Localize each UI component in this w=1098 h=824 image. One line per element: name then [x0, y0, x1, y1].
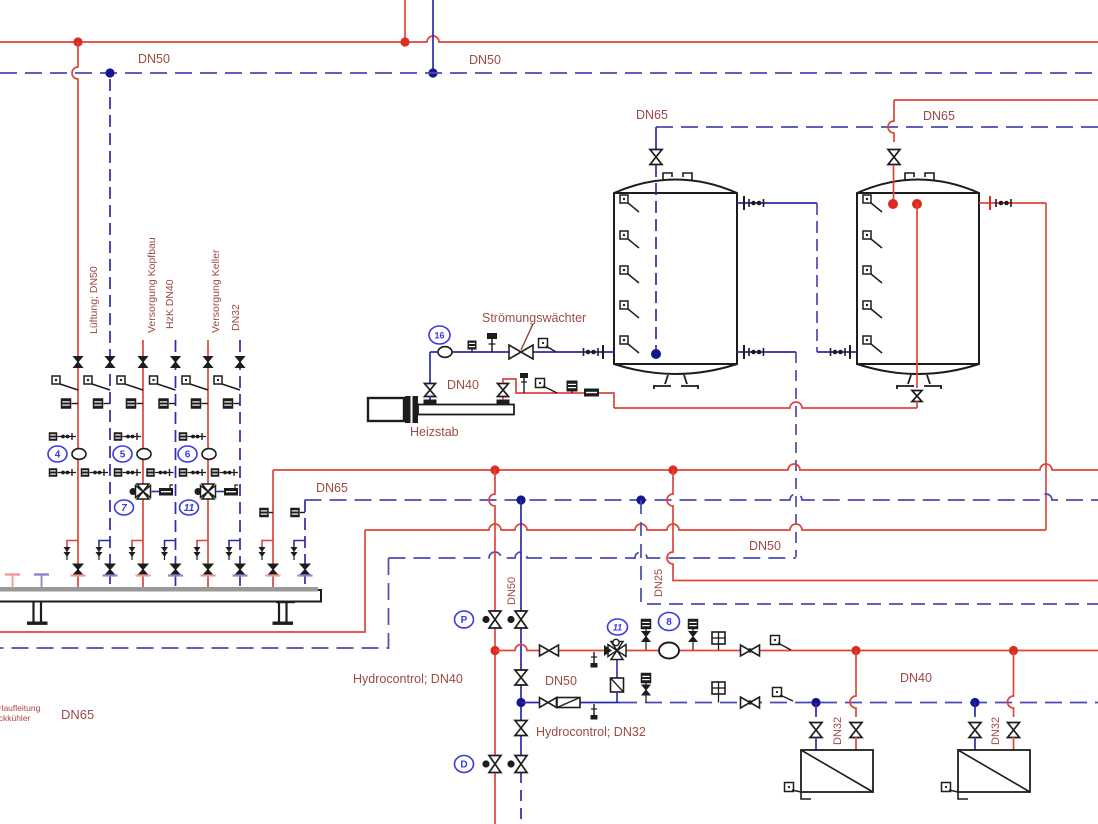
node blue (975,702.5) — [970, 698, 979, 707]
pipe: blue drop x=521 from y=500 — [520, 500, 522, 772]
pipe: red drop x=78 from header, jump over blue header — [72, 42, 78, 356]
pointer line to flow switch — [521, 324, 533, 350]
svg-text:6: 6 — [185, 450, 191, 461]
valve bowtie with dot on pump line — [741, 645, 760, 656]
valve on riser 5 — [204, 357, 213, 368]
node red (673,470) — [668, 465, 677, 474]
pump P6 on red riser — [202, 449, 216, 460]
mixing valve on riser x=208 — [195, 484, 239, 499]
T-square fitting on pump line — [712, 632, 725, 650]
valve bowtie on blue line — [540, 698, 557, 708]
valve above heater red — [498, 384, 509, 397]
svg-text:5: 5 — [120, 450, 126, 461]
pipe: blue dashed drop x=796 with jumps — [795, 352, 797, 557]
svg-text:Versorgung Keller: Versorgung Keller — [210, 249, 222, 333]
flange fitting tank B2 top-right red — [990, 196, 1011, 210]
valve blue x=521 y=619 — [515, 611, 527, 628]
circled label 16 — [429, 326, 450, 344]
T-fitting riser 1 — [61, 398, 78, 409]
circled label P — [455, 611, 474, 628]
pipe: blue dashed y=500 with jumps — [305, 494, 1098, 500]
valve red drop exchanger 1 — [850, 723, 862, 738]
drain branch riser 6 — [226, 541, 241, 561]
manifold stub blue left — [34, 575, 49, 589]
mixing valve on riser x=143 — [130, 484, 174, 499]
pipe: red inside tank B2 down — [916, 204, 918, 388]
thermometer small on pump line — [591, 652, 598, 668]
circled label D — [455, 756, 474, 773]
pipe: blue drop x=975 — [974, 703, 976, 718]
valve under tank B2 — [912, 391, 922, 402]
T-fitting riser 3 — [126, 398, 143, 409]
svg-text:DN50: DN50 — [138, 52, 170, 66]
svg-text:DN50: DN50 — [545, 674, 577, 688]
flag fitting on blue line — [773, 688, 794, 702]
shutoff valve riser 3 bottom — [138, 564, 148, 575]
shutoff valve riser 4 bottom — [171, 564, 181, 575]
union fitting riser 6 — [211, 468, 238, 477]
pipe: red to exchanger 1 — [855, 737, 857, 750]
pipe: blue to exchanger 2 — [974, 737, 976, 750]
svg-text:11: 11 — [613, 623, 622, 633]
svg-text:ückkühler: ückkühler — [0, 713, 31, 723]
valve V-B1 top on blue x=656 — [650, 150, 662, 165]
pipe: riser 6 blue — [239, 340, 241, 588]
pipe: riser 8 blue from DN50 line — [304, 500, 306, 588]
svg-text:DN40: DN40 — [447, 378, 479, 392]
tank B2 vent fittings — [905, 173, 914, 181]
pipe: blue return header DN50 y=73 dashed — [0, 72, 1098, 74]
valve on blue x=521 y=677 — [515, 670, 527, 685]
pipe: red supply header DN50 y=42 with jump over blue riser at x=433 — [0, 36, 1098, 42]
pipe: red line y=530 from x=365 to x=1046 with jumps — [365, 524, 1046, 530]
manifold bar — [0, 587, 321, 602]
valve red x=495 y=764 — [489, 756, 501, 773]
node: red junction (405,42) — [400, 37, 409, 46]
pump P4 on red riser — [72, 449, 86, 460]
tank B2 level sensors — [863, 195, 882, 212]
sensor fitting riser 6 — [214, 376, 240, 390]
drain stub exchanger 2 — [958, 792, 968, 799]
svg-text:Hydrocontrol; DN40: Hydrocontrol; DN40 — [353, 672, 463, 686]
flange tick riser 2 — [103, 574, 118, 576]
thermometer below blue line — [591, 704, 598, 720]
svg-text:DN50: DN50 — [749, 539, 781, 553]
flange fitting tank B1 bottom-right — [744, 345, 764, 359]
svg-text:11: 11 — [184, 503, 195, 514]
union fitting riser 4 — [146, 468, 173, 477]
flow switch valve bowtie — [509, 345, 533, 359]
heater coupling bars — [405, 396, 411, 423]
pipe: blue dashed header DN65 y=127 from x=656 to right edge — [656, 126, 1098, 128]
pipe: blue dashed inside tank B1 — [655, 165, 657, 350]
flange tick riser 1 — [71, 574, 86, 576]
drain branch riser 8 — [291, 541, 306, 561]
shutoff valve riser 1 bottom — [73, 564, 83, 575]
svg-text:DN32: DN32 — [832, 717, 844, 745]
valve on riser 1 — [74, 357, 83, 368]
heater flange left — [424, 400, 437, 405]
tank B1 level sensors — [620, 195, 639, 212]
valve on blue x=521 y=728 — [515, 721, 527, 736]
drain branch riser 3 — [129, 541, 144, 561]
pipe: tank B1 bottom-right connection — [737, 351, 796, 353]
valve on riser 3 — [139, 357, 148, 368]
T-fitting riser 6 — [223, 398, 240, 409]
shutoff valve riser 2 bottom — [105, 564, 115, 575]
valve V-B2 top on red x=894 — [888, 150, 900, 165]
flange tick riser 7 — [266, 574, 281, 576]
valve red drop exchanger 2 — [1008, 723, 1020, 738]
pipe: red return y=408 to tank B2 bottom, jump at x=796 — [614, 402, 917, 408]
sensor fitting riser 1 — [52, 376, 78, 390]
pipe: red to exchanger 2 — [1013, 737, 1015, 750]
tank B1 vent fittings — [663, 173, 672, 181]
svg-text:Heizstab: Heizstab — [410, 425, 459, 439]
tank B2 feet — [896, 375, 914, 389]
pipe: riser 5 red — [207, 340, 209, 588]
pipe: red heater return path to y=393 — [503, 379, 614, 408]
sensor fitting riser 2 — [84, 376, 110, 390]
node: blue junction (110,73) — [105, 68, 114, 77]
valve bowtie on pump line — [540, 645, 559, 656]
drain branch riser 4 — [161, 541, 176, 561]
drain branch riser 5 — [194, 541, 209, 561]
pipe: riser 7 red from DN65 line — [272, 470, 274, 588]
shutoff valve riser 8 bottom — [300, 564, 310, 575]
pipe: blue dashed elbow x=388 y=648 — [0, 558, 389, 648]
valve blue x=521 y=764 — [515, 756, 527, 773]
pipe: red into tank B2 top — [893, 165, 895, 200]
thermometer on line — [487, 333, 497, 352]
filter under mixing valve — [611, 660, 624, 703]
manifold stub red left — [5, 575, 20, 589]
black fitting rect on return — [584, 389, 599, 397]
node red (495,470) — [490, 465, 499, 474]
node red (856,650.5) — [851, 646, 860, 655]
pipe: blue dashed y=558 x=388 to x=796 with jumps — [389, 552, 797, 558]
branch fitting riser 7 — [259, 508, 273, 518]
pipe: blue drop x=656 to valve — [655, 127, 657, 149]
circled label 8 — [659, 613, 680, 631]
svg-text:DN65: DN65 — [316, 481, 348, 495]
shutoff valve riser 5 bottom — [203, 564, 213, 575]
heater rod — [418, 405, 514, 415]
pipe: blue dashed drop x=641 elbow to y=604 — [641, 500, 1098, 604]
flag fitting with handle — [539, 339, 557, 353]
node: red junction (78,42) — [73, 37, 82, 46]
fitting square on line — [468, 341, 477, 353]
pipe: blue drop x=816 — [815, 703, 817, 718]
svg-text:DN32: DN32 — [230, 304, 242, 331]
heater motor block — [368, 398, 404, 421]
svg-text:7: 7 — [121, 503, 127, 514]
node: red dot tank B2 outlet top — [912, 199, 922, 209]
flange tick riser 6 — [233, 574, 248, 576]
sensor fitting riser 5 — [182, 376, 208, 390]
valve bowtie with dot on blue line — [741, 697, 760, 708]
pipe: blue riser from top edge x=433 — [432, 0, 434, 73]
valve blue drop exchanger 1 — [810, 723, 822, 738]
pump P5 on red riser — [137, 449, 151, 460]
pipe: blue drop x=430 to heater — [429, 352, 431, 383]
svg-text:DN50: DN50 — [469, 53, 501, 67]
pump on blue line — [438, 347, 452, 358]
svg-text:orlaufleitung: orlaufleitung — [0, 703, 41, 713]
node blue (641,500) — [636, 495, 645, 504]
drain branch riser 2 — [96, 541, 111, 561]
pipe: blue valve to heater flange — [429, 396, 431, 400]
flag fitting exchanger 1 — [785, 783, 802, 793]
union fitting riser 5 — [179, 468, 206, 477]
flag fitting exchanger 2 — [942, 783, 959, 793]
valve on riser 2 — [106, 357, 115, 368]
flange fitting tank B2 bottom-left — [831, 345, 851, 359]
pipe: red from heater up — [502, 396, 504, 400]
T-fitting riser 2 — [93, 398, 110, 409]
circled label 5 — [113, 446, 132, 462]
svg-text:D: D — [460, 760, 467, 771]
flange tick riser 3 — [136, 574, 151, 576]
fitting square-T on return — [567, 381, 578, 394]
union fitting upper red riser 1 — [49, 432, 76, 441]
pipe: red pump line y=650.5 with jump at x=521 — [495, 645, 1098, 651]
heat exchanger 1 box — [801, 750, 873, 792]
circled label 4 — [48, 446, 67, 462]
drain branch riser 1 — [64, 541, 79, 561]
pipe: red drop x=856 jump over blue y=702.5 — [850, 651, 856, 718]
circled label 7 — [115, 500, 134, 515]
union fitting upper red riser 3 — [179, 432, 206, 441]
valve on riser 4 — [171, 357, 180, 368]
node blue (521,702.5) — [516, 698, 525, 707]
pipe: tank B1 top-right connection to drop x=817 — [737, 202, 817, 204]
pipe: blue drop x=110 dashed — [109, 79, 111, 356]
shutoff valve riser 7 bottom — [268, 564, 278, 575]
pipe: riser 4 blue — [175, 340, 177, 588]
manifold leg left — [27, 602, 48, 625]
tank B1 feet — [653, 375, 671, 389]
heat exchanger 2 box — [958, 750, 1030, 792]
drain branch riser 7 — [259, 541, 274, 561]
heater flange right — [497, 400, 510, 405]
T-square fitting on blue line — [712, 682, 725, 703]
sensor fitting riser 3 — [117, 376, 143, 390]
pipe: red drop x=1013.5 jump over blue — [1008, 651, 1014, 718]
pipe: blue into tank B2 bottom-left — [817, 351, 857, 353]
three-way mixing valve on pump line — [604, 639, 626, 659]
pipe: tank B2 top-right connection — [979, 202, 1046, 204]
flange fitting tank B1 top-right — [744, 196, 764, 210]
actuator dot blue valve — [507, 616, 514, 623]
actuator dot blue valve D row — [507, 760, 514, 767]
union fitting riser 2 — [81, 468, 108, 477]
flag fitting on return — [536, 379, 558, 394]
pipe: blue dashed drop x=817 — [816, 203, 818, 352]
thermometer on return — [520, 373, 528, 393]
pipe: blue line y=702.5 solid then fittings — [521, 702, 620, 704]
union fitting riser 1 — [49, 468, 76, 477]
svg-text:DN50: DN50 — [506, 577, 518, 605]
valve blue drop exchanger 2 — [969, 723, 981, 738]
pipe: red drop x=495 from y=470 with jump at y=500 — [489, 470, 495, 824]
pipe: blue to exchanger 1 — [815, 737, 817, 750]
svg-text:DN40: DN40 — [900, 671, 932, 685]
circled label 11 — [180, 500, 199, 515]
thermo square right — [688, 619, 699, 650]
drain stub exchanger 1 — [801, 792, 811, 799]
pipe: blue dashed y=702.5 to right edge — [620, 702, 1098, 704]
hydrocontrol valve rect — [557, 698, 580, 708]
pipe: blue line y=352 from x=430 to tank B1 — [430, 351, 614, 353]
pipe: red riser from top edge x=405 — [404, 0, 406, 42]
T-fitting riser 4 — [158, 398, 175, 409]
circled label 6 — [178, 446, 197, 462]
pipe: red elbow x=365 y=632 — [0, 530, 365, 632]
pipe: red drop x=1046 from tank B2 to line y=530 — [1045, 203, 1047, 530]
pipe: red drop x=894 jump over blue header y=127 — [888, 100, 894, 142]
flag fitting on pump line — [771, 636, 792, 651]
pipe: riser 1 red continuation — [77, 356, 79, 588]
node red (1013.5,650.5) — [1009, 646, 1018, 655]
svg-text:HzK DN40: HzK DN40 — [164, 279, 176, 329]
svg-text:Hydrocontrol; DN32: Hydrocontrol; DN32 — [536, 725, 646, 739]
union fitting upper red riser 2 — [114, 432, 141, 441]
union fitting riser 3 — [114, 468, 141, 477]
manifold leg right — [273, 601, 296, 625]
tank B2 shell — [857, 180, 979, 375]
svg-text:DN65: DN65 — [923, 109, 955, 123]
T-fitting riser 5 — [191, 398, 208, 409]
svg-text:DN25: DN25 — [653, 569, 665, 597]
svg-text:8: 8 — [666, 617, 672, 628]
actuator dot red valve D row — [482, 760, 489, 767]
svg-text:Lüftung; DN50: Lüftung; DN50 — [88, 266, 100, 334]
valve red x=495 y=619 — [489, 611, 501, 628]
flange tick riser 4 — [168, 574, 183, 576]
flange fitting into tank B1 left — [584, 345, 604, 359]
pipe: red line y=470 DN65 with jumps — [273, 464, 1098, 470]
node blue (521,500) — [516, 495, 525, 504]
svg-text:DN65: DN65 — [636, 108, 668, 122]
flange tick riser 8 — [298, 574, 313, 576]
tank B1 shell — [614, 180, 737, 375]
flange tick riser 5 — [201, 574, 216, 576]
svg-text:DN65: DN65 — [61, 707, 94, 722]
node: red dot tank B2 inlet — [888, 199, 898, 209]
valve on riser 6 — [236, 357, 245, 368]
valve pair on red x=495 at y=619 — [482, 616, 489, 623]
node blue (816,702.5) — [811, 698, 820, 707]
svg-text:Strömungswächter: Strömungswächter — [482, 311, 586, 325]
valve above heater blue — [425, 384, 436, 397]
pipe: blue drop x=521 dashed lower part — [520, 772, 522, 824]
svg-text:16: 16 — [434, 331, 444, 341]
node: blue dot inside tank B1 — [651, 349, 661, 359]
circled label 11 pump row — [608, 619, 628, 635]
node red (495,650.5) — [490, 646, 499, 655]
pipe: riser 3 red — [142, 340, 144, 588]
sensor fitting riser 4 — [150, 376, 176, 390]
pipe: riser 2 blue continuation — [109, 356, 111, 588]
svg-text:P: P — [461, 615, 468, 626]
svg-text:4: 4 — [55, 450, 61, 461]
thermo square with valve on blue line — [641, 673, 652, 703]
branch fitting riser 8 — [290, 508, 305, 518]
svg-text:DN32: DN32 — [990, 717, 1002, 745]
node: blue junction (433,73) — [428, 68, 437, 77]
thermo square with valve left — [641, 619, 652, 650]
pump main on line — [659, 643, 679, 659]
pipe: red drop x=673 elbow to y=580.5 — [667, 470, 1098, 581]
pipe: red header y=100 top right — [894, 99, 1098, 101]
pipe: red from valve to return line y=408 — [916, 401, 918, 408]
shutoff valve riser 6 bottom — [235, 564, 245, 575]
svg-text:Versorgung Kopfbau: Versorgung Kopfbau — [146, 237, 158, 333]
